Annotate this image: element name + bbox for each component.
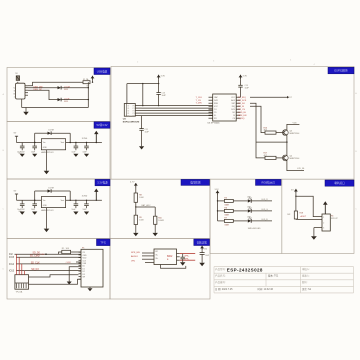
svg-text:LCD_BL: LCD_BL [297, 168, 305, 170]
svg-text:Vin: Vin [43, 200, 46, 202]
svg-text:4K7: 4K7 [264, 130, 267, 132]
svg-text:ESP32模块: ESP32模块 [334, 69, 348, 73]
svg-text:页次: S1: 页次: S1 [302, 287, 312, 291]
power flag [216, 191, 220, 194]
svg-text:T_CS: T_CS [196, 100, 202, 102]
svg-text:BAT_ADC: BAT_ADC [142, 204, 152, 207]
block border audio amp section [110, 239, 210, 299]
ground divider C [153, 233, 158, 236]
svg-text:3.3V电源: 3.3V电源 [97, 181, 108, 185]
wire rail to R6 [218, 210, 225, 212]
wire down to module VCC [126, 84, 128, 104]
wire C17 gnd [201, 254, 203, 262]
capacitor C out2 [86, 143, 88, 147]
svg-text:IO13: IO13 [9, 271, 15, 273]
capacitor C15 [240, 79, 242, 85]
wire Q3 collector to VDD [287, 124, 300, 130]
svg-text:3.3V: 3.3V [161, 76, 166, 78]
capacitor C out2 [86, 200, 88, 204]
ground TF VSS [67, 282, 72, 285]
svg-text:ESP32-WROOM: ESP32-WROOM [123, 122, 140, 124]
LED LED_R [248, 199, 251, 202]
capacitor C11 [139, 128, 143, 130]
ground [20, 212, 25, 215]
wire regulator gnd [46, 208, 48, 229]
svg-text:日 期: 2022.7.25: 日 期: 2022.7.25 [215, 287, 233, 291]
diode [48, 132, 52, 135]
amp IC U2 8002 body [154, 249, 177, 265]
wire node to R4 [135, 207, 137, 215]
resistor R6 [224, 209, 233, 212]
fuse F0 body [16, 76, 19, 81]
wire R7 to LED [233, 220, 248, 222]
title box 5V section [94, 122, 110, 129]
ground regulator [44, 229, 50, 232]
svg-text:104P: 104P [145, 132, 150, 134]
red wire socket pin2 [18, 257, 20, 275]
title box divider section [181, 179, 210, 185]
pin stubs module right [135, 105, 141, 107]
svg-text:Vout: Vout [61, 199, 65, 202]
pin stubs USB1 [25, 85, 28, 87]
svg-text:3: 3 [323, 228, 324, 230]
svg-text:产品型号:: 产品型号: [215, 267, 226, 271]
wire Q3 emitter down [256, 135, 287, 142]
wire node to cap [136, 206, 155, 208]
svg-text:Vout: Vout [61, 141, 65, 144]
pin stubs TF connector [79, 251, 82, 253]
red wire socket pin4 [23, 271, 25, 275]
svg-text:↑3.3V: ↑3.3V [65, 261, 71, 264]
svg-text:3.3V: 3.3V [243, 76, 248, 78]
block border speaker section [282, 179, 354, 253]
wires audio left pins [142, 252, 154, 254]
svg-text:D3: D3 [83, 274, 85, 276]
wire 5V from pin1 [28, 82, 83, 86]
svg-text:10uF/16V: 10uF/16V [17, 151, 25, 153]
wire input bus [17, 142, 42, 144]
svg-text:TP_SO: TP_SO [238, 103, 245, 105]
svg-text:CMD: CMD [83, 255, 88, 257]
svg-text:喇叭接口: 喇叭接口 [334, 181, 345, 185]
svg-text:P4: P4 [331, 215, 333, 217]
wire module bottom gnd [141, 116, 143, 129]
svg-text:AMS1117-3.3: AMS1117-3.3 [41, 151, 54, 154]
title box audio section [194, 239, 210, 246]
svg-text:AOUT: AOUT [301, 215, 307, 218]
wire rail to R5 [218, 200, 225, 202]
LED LED_G [248, 209, 251, 212]
wire R16 to Q3 [276, 132, 284, 134]
wire C13 down join [158, 94, 160, 105]
wire output bus [66, 142, 102, 144]
svg-text:↑3.3V: ↑3.3V [39, 253, 45, 256]
ground [84, 212, 89, 215]
pin stubs U2 right [177, 253, 180, 255]
wire to R3 [135, 188, 137, 194]
svg-text:D2: D2 [83, 271, 85, 273]
block border TF card section [7, 239, 110, 299]
power flag [239, 75, 243, 78]
red wire SPK- [180, 259, 196, 261]
svg-text:10uF: 10uF [72, 151, 76, 153]
ground [32, 212, 37, 215]
transistor [282, 130, 288, 136]
module U4 ESP32-WROOM body [124, 104, 135, 117]
capacitor C18 [182, 254, 184, 258]
wire down right pin [142, 84, 144, 106]
resistor R18 [294, 211, 297, 219]
svg-text:F1 2A: F1 2A [83, 78, 89, 81]
svg-text:P4: P4 [133, 116, 135, 118]
wire VBUS to connector [17, 82, 19, 83]
capacitor C input1 [21, 143, 23, 147]
ground module [139, 146, 144, 149]
svg-text:P2: P2 [133, 111, 135, 113]
wire conn pin3 [314, 227, 322, 229]
ground USB [25, 108, 27, 112]
svg-text:GND: GND [43, 147, 48, 149]
wire branch to conn [296, 196, 322, 216]
svg-text:批准人:: 批准人: [302, 274, 310, 278]
svg-text:Vin: Vin [43, 142, 46, 144]
power arrow P4 top [323, 201, 328, 205]
block border RGB LED section [210, 179, 282, 253]
module antenna strip [125, 104, 127, 117]
svg-text:T_DIN: T_DIN [196, 103, 203, 105]
wire LED LED_B out [251, 220, 272, 222]
power flag [200, 246, 204, 249]
touch IC U3 XPT2046 body [213, 94, 237, 121]
block border 3.3V regulator section [7, 179, 110, 239]
wire regulator gnd [46, 150, 48, 171]
connector USB1 micro-usb [16, 83, 25, 99]
resistor R4 [134, 215, 137, 224]
svg-text:IO15: IO15 [9, 257, 15, 259]
title box USB section [94, 68, 110, 75]
wire C11 to ground [141, 130, 143, 146]
wire gnd drop [313, 228, 315, 237]
resistor R1 [62, 250, 71, 253]
fuse F1 [83, 81, 90, 84]
svg-text:SPK_EN: SPK_EN [238, 115, 247, 117]
svg-text:TP_CS: TP_CS [238, 109, 245, 111]
diode [58, 86, 62, 89]
TF connector P1 body [81, 249, 103, 287]
title box RGB section [256, 179, 282, 185]
svg-text:330R: 330R [224, 224, 229, 226]
TF socket hatching [16, 284, 18, 289]
svg-text:U2: U2 [155, 251, 157, 253]
wire module top bus [127, 83, 159, 85]
resistor R16 [265, 131, 276, 134]
wire R18 down [295, 218, 297, 220]
svg-text:MMBT3904: MMBT3904 [290, 158, 300, 160]
wire to R18 [295, 193, 297, 211]
diode [48, 189, 52, 192]
svg-text:5551: 5551 [64, 101, 68, 103]
wire DM to D2 [28, 87, 58, 89]
svg-text:LED_G: LED_G [262, 209, 269, 211]
ground regulator [44, 171, 50, 174]
power flag [294, 189, 298, 192]
ground [84, 154, 89, 157]
svg-text:P1: P1 [133, 108, 135, 110]
svg-text:D0: D0 [83, 266, 85, 268]
svg-text:IN+: IN+ [156, 258, 159, 260]
svg-text:SD_CMD: SD_CMD [30, 256, 40, 258]
wire LED LED_R out [251, 200, 272, 202]
wire Q4 emitter out [287, 161, 304, 171]
power flag [157, 75, 161, 78]
capacitor C out1 [75, 143, 77, 147]
wire amp bottom [161, 265, 186, 269]
svg-text:T_CLK: T_CLK [196, 97, 203, 99]
svg-text:MMBT3904: MMBT3904 [290, 133, 300, 135]
svg-text:3.3V: 3.3V [215, 189, 220, 191]
capacitor C input1 [21, 200, 23, 204]
svg-text:104P: 104P [162, 95, 167, 97]
svg-text:330R: 330R [224, 204, 229, 206]
capacitor C out1 [75, 200, 77, 204]
svg-text:330R: 330R [224, 214, 229, 216]
ground amp right [199, 263, 205, 266]
svg-text:图号:: 图号: [302, 280, 308, 284]
transistor [282, 155, 288, 161]
title box ESP32 section [328, 67, 354, 74]
ground [73, 212, 78, 215]
ground USB shield [23, 112, 29, 115]
ground speaker [311, 236, 317, 240]
diode [58, 98, 62, 101]
svg-text:10uF/16V: 10uF/16V [17, 209, 25, 211]
power flag [134, 183, 138, 186]
svg-text:SPK-2P: SPK-2P [331, 218, 338, 220]
red wire socket pin1 [16, 254, 18, 275]
LED LED_B [248, 219, 251, 222]
svg-text:P3: P3 [133, 113, 135, 115]
wire input bus [17, 199, 42, 201]
junction [88, 87, 89, 88]
svg-text:TP_SI: TP_SI [238, 106, 244, 108]
svg-text:100KR: 100KR [158, 220, 164, 222]
svg-text:3.3V0: 3.3V0 [82, 196, 88, 198]
resistor R7 [224, 219, 233, 222]
ground TF shell [88, 288, 93, 291]
title box TF section [97, 239, 111, 246]
capacitor C13 [158, 79, 160, 92]
capacitor C input2 [34, 143, 36, 147]
ground divider R [133, 233, 138, 236]
power flag 3.3V out [94, 131, 98, 134]
svg-text:D1 M7: D1 M7 [49, 130, 55, 132]
resistor R3 [134, 193, 137, 202]
svg-text:TP_IRQ: TP_IRQ [238, 97, 246, 99]
pin stubs U3 right [236, 96, 240, 98]
title box speaker section [325, 180, 354, 186]
svg-text:LED_R: LED_R [262, 199, 269, 201]
resistor R10 [154, 207, 156, 216]
wire right bus vertical [87, 82, 89, 107]
wire D3 cathode loop [62, 99, 89, 101]
wire C15 to pin1 [240, 87, 242, 97]
power flag 3.3V out [94, 189, 98, 192]
svg-text:ESP-2432S028: ESP-2432S028 [227, 267, 263, 272]
capacitor C17 [201, 250, 203, 252]
wire R18 to connector [296, 218, 322, 220]
wire SD_D0 row [15, 253, 47, 255]
svg-text:R18: R18 [300, 213, 303, 215]
pin stubs U3 left [209, 96, 213, 98]
svg-text:SD_D3: SD_D3 [31, 269, 39, 271]
svg-text:AMS1117-3.3: AMS1117-3.3 [41, 209, 54, 212]
svg-text:LCD_BL: LCD_BL [238, 112, 247, 114]
ground [20, 154, 25, 157]
wire R1 right to pin [71, 251, 81, 253]
wire SD_D3 row [16, 270, 46, 272]
svg-text:VDD: VDD [293, 122, 298, 124]
title block table [214, 266, 354, 268]
wire RGB power rail [217, 195, 219, 221]
svg-text:4K7: 4K7 [264, 155, 267, 157]
wire DP to D3 [28, 90, 58, 99]
wire R3 to node [135, 202, 137, 207]
diode bypass D [34, 133, 36, 142]
bus wires module to touch IC [142, 105, 213, 107]
ground amp left [180, 262, 185, 265]
svg-text:IO14: IO14 [9, 264, 15, 266]
svg-text:TP_SCK: TP_SCK [238, 100, 247, 102]
wire SD_CLK row [16, 263, 46, 265]
svg-text:100K: 100K [139, 197, 144, 199]
svg-text:D1 M7: D1 M7 [49, 187, 55, 189]
wire R1 left [59, 252, 62, 254]
svg-text:VIN: VIN [131, 261, 135, 263]
svg-text:LED_B: LED_B [262, 219, 269, 221]
svg-text:USB电源: USB电源 [97, 69, 108, 73]
wire drop A [250, 103, 265, 158]
wire output bus [66, 199, 102, 201]
diode bypass D [34, 191, 36, 200]
regulator U AMS1117 body [41, 197, 65, 208]
svg-text:5V0: 5V0 [204, 248, 207, 250]
capacitor C input2 [34, 200, 36, 204]
svg-text:TF卡: TF卡 [100, 240, 106, 244]
wire connector gnd down [21, 99, 23, 108]
red wire SPK+ [180, 253, 196, 255]
svg-text:3.3V0: 3.3V0 [82, 138, 88, 140]
wire SD_CMD row [16, 256, 46, 258]
wire TP_IRQ long [250, 96, 287, 98]
wire LED LED_G out [251, 210, 272, 212]
resistor R10 [154, 216, 157, 224]
svg-text:SMD-0805LED: SMD-0805LED [248, 228, 261, 230]
svg-text:D1: D1 [83, 268, 85, 270]
svg-text:U3 XPT2046: U3 XPT2046 [208, 122, 221, 124]
power flag [91, 76, 95, 79]
wire R17 to Q4 [276, 157, 284, 159]
ground [32, 154, 37, 157]
connector P4 speaker body [322, 214, 330, 231]
svg-text:产品名号:: 产品名号: [215, 274, 226, 278]
svg-text:SPK_EN: SPK_EN [131, 252, 140, 254]
ground TF connector [89, 287, 91, 288]
svg-text:TF-01A: TF-01A [16, 291, 23, 294]
ground [73, 154, 78, 157]
wire R10 to ground [154, 224, 156, 233]
svg-text:XL: XL [214, 115, 216, 117]
resistor R5 [224, 199, 233, 202]
svg-text:1: 1 [323, 217, 324, 219]
title box 3.3V section [95, 179, 110, 185]
wire bottom return [22, 107, 89, 109]
svg-text:P0: P0 [133, 106, 135, 108]
svg-text:5V转3.3V: 5V转3.3V [96, 123, 107, 127]
regulator U AMS1117 body [41, 139, 65, 150]
block border ESP32 main section [111, 67, 354, 180]
wire VSS pin to ground [69, 267, 81, 282]
block border divider section [110, 179, 210, 238]
svg-text:T_IRQ: T_IRQ [238, 118, 245, 120]
wire rail to R7 [218, 220, 225, 222]
wire R5 to LED [233, 200, 248, 202]
wire drop B [250, 106, 265, 132]
svg-text:8002: 8002 [167, 255, 173, 258]
wire R6 to LED [233, 210, 248, 212]
svg-text:4.7V: 4.7V [130, 182, 135, 184]
wire R4 to ground [135, 225, 137, 233]
resistor R17 [265, 156, 276, 159]
svg-text:SPK-: SPK- [185, 259, 190, 261]
svg-text:版本: T01: 版本: T01 [268, 274, 279, 278]
wire Q4 collector up [286, 142, 288, 155]
wire socket to connector row A [29, 275, 79, 277]
svg-text:104P: 104P [245, 88, 250, 90]
svg-text:AUDIO: AUDIO [131, 255, 138, 258]
wire socket to connector row B [29, 279, 82, 284]
svg-text:审核人:: 审核人: [302, 267, 310, 271]
block border 5V regulator section [7, 122, 110, 180]
svg-text:产品编号:: 产品编号: [215, 280, 226, 284]
svg-text:100K: 100K [139, 219, 144, 221]
red wire socket pin3 [21, 264, 23, 275]
svg-text:GND: GND [43, 205, 48, 207]
svg-text:10uF: 10uF [72, 209, 76, 211]
svg-text:2: 2 [323, 222, 324, 224]
svg-text:5551: 5551 [64, 89, 68, 91]
wire D2 cathode loop [62, 87, 89, 89]
svg-text:音频功放: 音频功放 [196, 240, 207, 244]
TF socket J1 body [15, 275, 29, 290]
block border USB power section [7, 68, 110, 122]
svg-text:SD_CLK: SD_CLK [31, 262, 40, 264]
svg-text:时间: 14:32:46: 时间: 14:32:46 [258, 287, 274, 291]
svg-text:电压检测: 电压检测 [190, 180, 201, 184]
svg-text:RGB指示灯: RGB指示灯 [262, 180, 276, 184]
